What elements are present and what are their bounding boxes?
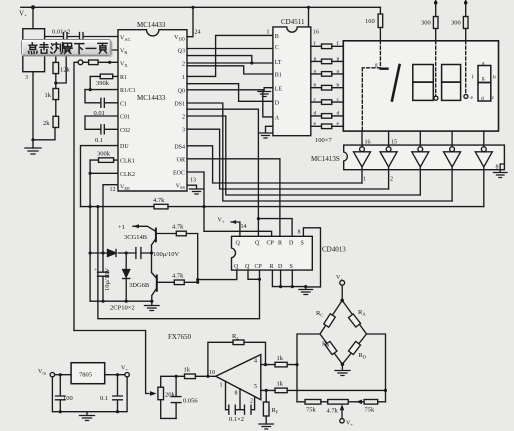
resistor 100x7 segment a [311,73,344,75]
resistor 1k output [176,375,216,377]
svg-text:g: g [482,76,485,82]
svg-text:1k: 1k [277,381,284,388]
svg-text:8: 8 [235,391,238,397]
op-amp U6 FX7650 [168,333,191,341]
svg-text:13: 13 [190,178,196,184]
junction VEE tap [101,251,104,254]
op LED display block [343,41,498,131]
svg-text:RA: RA [358,309,366,317]
svg-text:10: 10 [209,370,215,376]
wire rail to potentiometer top [32,7,34,28]
svg-text:8: 8 [496,165,499,171]
resistor 100x7 segment c [311,101,344,103]
decimal point DP2 [464,94,468,98]
svg-text:1: 1 [267,30,270,36]
svg-text:OR: OR [177,157,185,163]
diode D2 2CP10 vertical [125,253,127,301]
svg-text:0.1: 0.1 [100,395,108,402]
junction Q2 base / Q line [196,281,199,284]
wire bottom R,D,S to ground [272,270,305,287]
svg-text:Q3: Q3 [178,49,185,55]
svg-text:MC14433: MC14433 [137,21,166,29]
potentiometer RP1 (range pot) [23,29,45,72]
resistor 4.7k base Q2 [158,281,198,283]
resistor RB arm [325,341,337,354]
svg-text:Q: Q [234,264,239,270]
svg-text:EOC: EOC [173,171,185,177]
wire DS4 to driver line L1 [187,146,362,183]
svg-text:V+: V+ [218,218,225,225]
svg-text:MC1413S: MC1413S [311,155,340,163]
svg-text:300: 300 [421,20,431,27]
wire DS3 to driver line L2 [187,129,389,189]
svg-text:d: d [337,111,340,117]
potentiometer 4.7k bridge balance [328,400,349,405]
wire bottom Q to DU drive [198,270,237,280]
resistor 300 DP1 [435,0,437,41]
resistor 300 DP2 [465,0,467,41]
svg-text:Vin: Vin [38,369,47,376]
svg-text:16: 16 [365,140,371,146]
junction top rail left corner [31,5,35,9]
wire Q2 to 4511-LT [187,62,273,64]
resistor RC arm [324,314,336,327]
svg-text:24: 24 [195,30,201,36]
svg-text:0.056: 0.056 [183,398,198,405]
resistor 1k [53,89,59,100]
wire Vx terminal down to measuring input [74,62,78,330]
svg-text:CLK1: CLK1 [120,159,135,165]
wire dashed 160 to minus segment and digit column [362,41,380,131]
svg-text:f: f [314,40,316,47]
wire display to driver stub 1 / pin16 [361,131,363,147]
svg-text:f: f [472,74,474,81]
junction CD4013 Qbar feed [257,217,260,220]
svg-text:75k: 75k [365,407,376,414]
svg-text:R1: R1 [120,75,127,81]
buffer inverter 3 [418,147,423,152]
svg-text:R: R [278,241,282,247]
wire bridge left to amp input [297,334,320,402]
wire branch to CD4013 D [258,219,292,237]
wire OR-bar to CD4013 R [187,159,280,237]
wire Q1 to 4511-BI [187,66,273,74]
op IC U3 MC1413S driver [344,145,505,170]
svg-text:+: + [94,267,97,273]
svg-text:8: 8 [298,230,301,236]
svg-text:B1: B1 [275,73,282,79]
buffer inverter 1 [360,147,365,152]
svg-text:RD: RD [359,352,367,360]
node Vx input terminal [78,60,83,65]
svg-text:1k: 1k [184,367,191,374]
capacitor 0.01x2 on VAC line [45,33,118,41]
wire tap to VR riser [56,55,66,83]
svg-text:CP: CP [267,241,275,247]
glyph lan [63,43,72,53]
wire DU pin left and down [81,146,119,207]
svg-text:1k: 1k [45,92,52,99]
decimal point DP1 [434,96,438,100]
node V+ output terminal [121,366,128,373]
glyph ji [40,43,48,54]
resistor RA arm [348,314,360,327]
wire V+ top rail [21,6,381,8]
diode D1 2CP10 [108,250,117,257]
svg-text:2k: 2k [43,120,50,127]
svg-text:D: D [278,264,283,270]
svg-text:1: 1 [220,383,223,389]
svg-text:C02: C02 [120,128,130,134]
junction D2 tap [125,251,128,254]
node V+ terminal at bridge top [336,275,343,282]
wire Q0b to 4511-A [187,90,273,117]
svg-text:3: 3 [182,128,185,134]
junction CLK vert on DU line [89,205,92,208]
wire bottom Qbar-CP tie [248,270,260,279]
op IC U5 7805 regulator [71,363,105,384]
wire charge pump line [90,252,151,254]
svg-text:b: b [314,82,317,88]
junction EOC / DU drive / driver line L5 [202,205,205,208]
svg-text:2: 2 [390,177,393,183]
wire bridge bottom excitation rail [297,401,386,403]
ground bridge bottom [335,364,350,375]
wire VDD pin24 to rail [187,7,193,36]
junction CLK2 [89,172,92,175]
wire dashed 300 to DP1 [435,41,437,96]
svg-text:300: 300 [451,20,461,27]
resistor 160 overflow segment [379,7,381,41]
capacitor 0.056 [171,376,181,418]
svg-text:+1: +1 [118,224,125,231]
svg-text:Q: Q [245,264,250,270]
node +1 supply arrow [118,224,125,231]
svg-text:Q: Q [236,241,241,247]
svg-text:0.01×2: 0.01×2 [52,29,70,36]
svg-text:C01: C01 [120,115,130,121]
svg-text:f: f [337,40,339,47]
potentiometer 20k [161,376,176,418]
resistor 100x7 segment b [311,87,344,89]
junction bridge top [340,299,344,303]
glyph ye [98,43,107,53]
junction Q2/LT [250,61,253,64]
svg-text:V+: V+ [121,366,128,373]
svg-text:DS1: DS1 [174,102,185,108]
junction D2 bottom [125,300,128,303]
resistor 100x7 segment f [311,45,344,47]
node V+ bridge bias terminal [340,419,344,423]
buffer inverter 5 [481,147,486,152]
svg-text:C: C [275,45,279,51]
buffer inverter 4 [450,147,455,152]
junction bridge bottom [341,362,345,366]
svg-text:2: 2 [182,115,185,121]
digit 1 [392,65,400,101]
svg-text:1: 1 [363,177,366,183]
svg-text:S: S [301,241,304,247]
junction output cap [116,373,119,376]
svg-text:LT: LT [275,60,282,66]
capacitor 100u/10V [136,248,141,259]
svg-text:300k: 300k [97,151,111,158]
op IC U4 CD4013 dual flip-flop [232,236,313,270]
svg-text:Q: Q [255,241,260,247]
junction RF tap [265,389,268,392]
ground VSS pin13 [187,185,204,194]
junction pot-ground / 2k [31,138,34,141]
svg-text:CD4511: CD4511 [281,18,305,26]
junction 10u bottom [101,300,104,303]
wire display to driver stub 3 [419,131,421,147]
wire Q0 to 4511-D [187,84,273,102]
wire regulator to V+ terminal [105,374,125,376]
wire Vin to regulator [55,374,72,376]
transistor Q1 3CG14B PNP [155,229,157,242]
wire DS line to CD4013 Q-bar and D [187,109,258,236]
svg-text:0.1×2: 0.1×2 [229,416,244,423]
wire pin14 V+ supply arrow [231,222,240,236]
svg-text:12k: 12k [60,67,71,74]
svg-text:Rg: Rg [232,333,239,341]
svg-text:4: 4 [254,359,257,365]
svg-text:160: 160 [365,18,375,25]
svg-text:DS4: DS4 [174,144,185,150]
wire S top loop to ground [303,228,320,287]
resistor 75k right [364,400,378,405]
digit 8 second [442,65,461,101]
svg-text:VX: VX [120,62,128,69]
wire pump bottom rail [90,300,152,302]
svg-text:D: D [275,101,280,107]
wire Vx terminal to input resistor [83,61,89,63]
wire bridge right to amp input [367,334,386,402]
svg-text:3: 3 [25,75,28,81]
wire V+ terminal to bridge [341,285,343,300]
resistor 12k [55,50,57,89]
junction 12k/1k tap [54,81,57,84]
resistor RD arm [348,341,360,354]
ground Q2 emitter [145,301,160,310]
junction emitter Q2 [150,300,153,303]
svg-text:1: 1 [182,75,185,81]
svg-text:100μ/10V: 100μ/10V [153,251,180,258]
svg-text:7805: 7805 [79,372,92,379]
resistor 4.7k DU line [81,206,205,208]
junction feedback node [206,375,209,378]
svg-text:VR: VR [120,49,127,56]
capacitor 0.1 C01-C02 [85,116,118,134]
wire CLK2 line [90,172,118,174]
svg-text:12: 12 [110,187,116,193]
wire display to driver stub 4 [451,131,453,147]
ground 4511 LE [258,88,273,97]
wire PSU bottom rail [52,377,127,412]
svg-text:RF: RF [272,407,279,415]
glyph liu [51,43,63,54]
junction Qbar/CP [258,278,261,281]
svg-text:75k: 75k [306,407,317,414]
svg-text:2CP10×2: 2CP10×2 [110,305,135,312]
wire Q3 to 4511-C [187,48,273,50]
junction pin16 on rail [307,6,310,9]
svg-text:100: 100 [63,395,73,402]
svg-text:14: 14 [241,224,247,230]
junction input cap [59,373,62,376]
wire VR line (under button) [56,49,118,51]
junction Rg to pin4 [264,363,267,366]
resistor 75k left [305,400,321,405]
digit half-1 minus segment [381,67,388,69]
wire dashed 300 to DP2 [465,41,467,94]
wire Q2 jog [187,56,252,63]
resistor Rg feedback [208,342,266,376]
capacitor 10u/16V electrolytic [98,253,109,301]
bridge diamond wires [320,300,367,364]
svg-text:b: b [493,75,496,81]
svg-text:10μ/16V: 10μ/16V [104,268,111,291]
svg-text:g: g [314,56,317,62]
wire DS1 to driver line L4 [187,103,452,201]
junction R-D-S gnd [279,285,282,288]
svg-text:4.7k: 4.7k [172,224,184,231]
resistor 300k clock [90,159,118,161]
junction pump line start [89,251,92,254]
junction bridge right to 1k pin5 [384,389,387,392]
wire driver line L5 [204,206,484,208]
svg-text:S: S [290,264,293,270]
ground CD4013 [299,287,313,295]
svg-text:1k: 1k [277,355,284,362]
resistor 1k pin4 [261,364,297,366]
ground PSU [80,412,95,421]
capacitor C1 0.01 [85,90,118,108]
wire display to driver stub 2 / pin15 [388,131,390,147]
digit 8 first [413,65,434,101]
svg-text:DU: DU [120,144,129,150]
svg-text:V+: V+ [19,10,27,20]
wire resistor to Vx pin [98,61,118,63]
resistor 100x7 segment e [311,125,344,127]
ground RF [259,424,274,429]
junction bottom Q / 4.7k [196,278,199,281]
svg-text:R1/C1: R1/C1 [120,88,136,94]
capacitor 0.1x2 clock caps [226,381,255,414]
wire display to driver stub 5 [483,131,485,147]
svg-text:3DG6B: 3DG6B [129,282,150,289]
svg-text:VEE: VEE [120,185,130,192]
junction transistor collectors [150,251,153,254]
svg-text:4.7k: 4.7k [153,197,165,204]
wire pot bottom to ground [32,72,34,148]
svg-text:4.7k: 4.7k [172,273,184,280]
wire 4511 pin16 to rail [308,7,310,27]
wire EOC down [187,172,272,236]
wire CLK1 to CLK2 and charge pump [89,160,91,301]
capacitor 100 input [56,375,66,412]
svg-text:RB: RB [322,341,329,349]
transistor Q2 3DG6B NPN [156,276,158,291]
svg-text:d: d [481,96,484,102]
glyph xia [75,44,84,54]
wire 2k bottom to ground node [33,128,55,140]
wire R1/C1 line [85,89,118,91]
wire DS2 to driver line L3 [187,116,420,195]
resistor RF [265,390,267,424]
svg-text:A: A [275,116,280,122]
resistor 2k [53,116,59,127]
svg-text:16: 16 [313,30,319,36]
resistor 100x7 segment g [311,60,344,62]
glyph yi [86,47,96,49]
junction VDD on rail [191,6,194,9]
svg-text:D: D [289,241,294,247]
glyph dian [28,43,37,54]
svg-text:g: g [375,62,378,68]
svg-text:4.7k: 4.7k [327,408,339,415]
op IC U1 MC14433 A/D converter [118,30,187,191]
svg-text:g: g [337,56,340,62]
resistor Vx series [89,60,99,65]
svg-text:390k: 390k [96,80,110,87]
wire Vx sense to 20k pot wiper [74,331,149,394]
svg-text:5: 5 [254,384,257,390]
wire CP to auto-zero line [98,207,260,319]
svg-text:20k: 20k [165,392,176,399]
node Vin terminal [38,369,47,376]
ground pot bottom [25,148,41,154]
svg-text:CP: CP [255,264,263,270]
svg-text:VSS: VSS [176,184,186,191]
svg-text:B: B [275,34,279,40]
wire VEE pin 12 down to pump [103,185,118,253]
ground 4511 bottom-left pin [259,126,273,138]
ground driver pin8 [494,164,508,178]
resistor 390k R1 [90,76,118,89]
junction auto-zero on DU line [96,205,99,208]
resistor 1k pin5 [261,389,386,391]
op IC U2 CD4511 BCD-7seg decoder [273,27,311,136]
node V+ label top-left [19,10,27,20]
svg-text:C1: C1 [120,101,127,107]
svg-text:15: 15 [391,140,397,146]
resistor 100x7 segment d [311,115,344,117]
svg-text:R: R [270,264,274,270]
buffer inverter 2 [386,147,391,152]
svg-text:V+: V+ [346,421,353,428]
svg-text:FX7650: FX7650 [168,333,191,341]
svg-text:MC14433: MC14433 [137,94,166,102]
junction R1/C1 [89,88,92,91]
junction Vx line [108,61,111,64]
svg-text:Q0: Q0 [178,88,185,94]
capacitor 0.1 output [113,375,123,412]
junction output filter [175,375,178,378]
pin segment letters on small digit [471,61,497,103]
svg-text:CLK2: CLK2 [120,172,135,178]
svg-text:VDD: VDD [174,35,186,42]
junction pin4 to bridge left [295,363,298,366]
digit 8 third small [478,66,491,102]
wire Q1b to 4511-B [187,35,273,76]
svg-text:0.1: 0.1 [95,137,103,144]
resistor 4.7k base Q1 [157,234,198,283]
svg-text:2: 2 [182,62,185,68]
junction caps bottom [59,410,62,413]
svg-text:2: 2 [250,399,253,405]
svg-text:100×7: 100×7 [315,137,332,144]
